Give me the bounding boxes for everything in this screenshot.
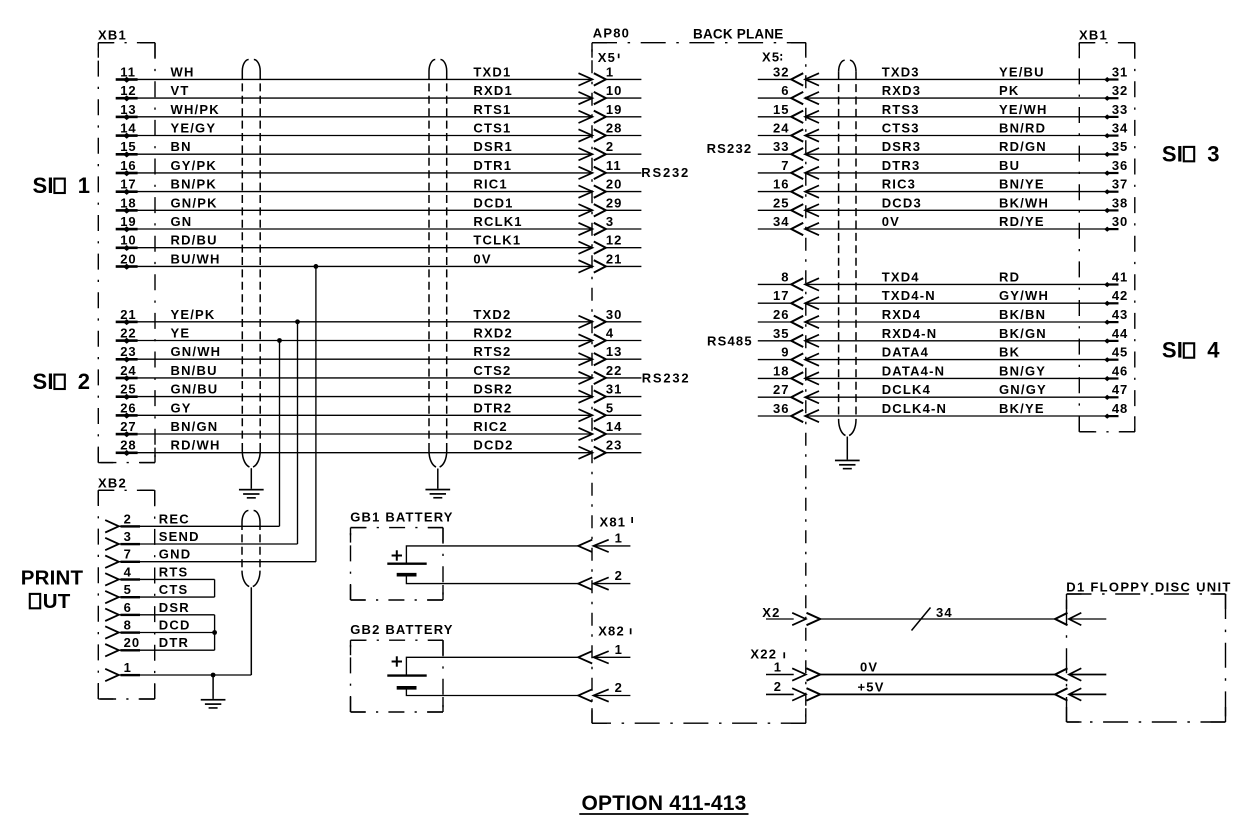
svg-text:10: 10 xyxy=(606,83,622,98)
svg-text:GY/WH: GY/WH xyxy=(999,288,1049,303)
svg-text:BN/RD: BN/RD xyxy=(999,121,1046,136)
wire XB2-4 RTS xyxy=(105,564,214,585)
svg-text:23: 23 xyxy=(120,344,136,359)
wire XB1-23 GN/WH / RTS2 to X5-13 xyxy=(116,344,593,365)
svg-text:38: 38 xyxy=(1112,195,1128,210)
svg-text:BN: BN xyxy=(171,139,192,154)
wire XB1-20 BU/WH / 0V to X5-21 xyxy=(116,251,593,272)
svg-text:24: 24 xyxy=(120,363,136,378)
cable shield SIO1/SIO2 cable A xyxy=(242,60,260,468)
cable shield SIO3/SIO4 cable xyxy=(839,60,856,435)
svg-text:TXD4-N: TXD4-N xyxy=(882,288,936,303)
svg-text:2: 2 xyxy=(124,511,132,526)
svg-text:GN/WH: GN/WH xyxy=(171,344,222,359)
svg-text:13: 13 xyxy=(120,102,136,117)
svg-text:30: 30 xyxy=(606,307,622,322)
shield drain wire A xyxy=(250,468,252,489)
svg-text:YE/WH: YE/WH xyxy=(999,102,1048,117)
svg-text:36: 36 xyxy=(773,401,789,416)
wire X5-35 RXD4-N / BK/GN to XB1-44 xyxy=(805,326,1128,347)
svg-text:43: 43 xyxy=(1112,307,1128,322)
svg-text:1: 1 xyxy=(615,531,623,546)
connector X82 pins xyxy=(578,623,631,701)
bus slash /34 xyxy=(912,605,953,631)
svg-text:RS232: RS232 xyxy=(642,370,691,385)
svg-text:CTS1: CTS1 xyxy=(473,121,511,136)
svg-text:48: 48 xyxy=(1112,401,1128,416)
svg-text:OPTION 411-413: OPTION 411-413 xyxy=(582,792,747,815)
svg-text:GND: GND xyxy=(159,547,192,562)
wire X5-26 RXD4 / BK/BN to XB1-43 xyxy=(805,307,1128,328)
wire X5-24 CTS3 / BN/RD to XB1-34 xyxy=(805,121,1128,142)
wire XB2-20 DTR xyxy=(105,635,214,656)
svg-text:2: 2 xyxy=(78,369,90,394)
svg-text:BU/WH: BU/WH xyxy=(171,251,221,266)
wire GB1+ to X81-1 xyxy=(406,546,578,564)
svg-text:3: 3 xyxy=(124,529,132,544)
svg-text:RD/GN: RD/GN xyxy=(999,139,1047,154)
label X5 (left) xyxy=(598,50,620,65)
svg-text:21: 21 xyxy=(120,307,136,322)
label X5 (right) xyxy=(762,50,782,65)
svg-text:32: 32 xyxy=(1112,83,1128,98)
svg-text:DATA4-N: DATA4-N xyxy=(882,363,946,378)
svg-text:X5: X5 xyxy=(762,50,780,65)
wire XB2-1 shield xyxy=(105,660,251,681)
svg-text:27: 27 xyxy=(120,419,136,434)
wire XB1-18 GN/PK / DCD1 to X5-29 xyxy=(116,195,593,216)
svg-text:GB1 BATTERY: GB1 BATTERY xyxy=(350,510,453,525)
svg-text:SI: SI xyxy=(33,369,54,394)
svg-text:34: 34 xyxy=(936,605,953,620)
svg-text:42: 42 xyxy=(1112,288,1128,303)
svg-text:12: 12 xyxy=(120,83,136,98)
svg-text:RIC2: RIC2 xyxy=(473,419,507,434)
ground cable A shield xyxy=(239,489,264,499)
svg-text:36: 36 xyxy=(1112,158,1128,173)
wire X5-25 DCD3 / BK/WH to XB1-38 xyxy=(805,195,1128,216)
svg-text:7: 7 xyxy=(781,158,789,173)
svg-text:5: 5 xyxy=(606,400,614,415)
svg-text:RXD4-N: RXD4-N xyxy=(882,326,938,341)
svg-text:15: 15 xyxy=(773,102,789,117)
svg-text:8: 8 xyxy=(124,618,132,633)
wire XB2-6 DSR xyxy=(105,600,214,621)
wire SEND to TXD2 (vertical) xyxy=(295,319,300,544)
svg-text:1: 1 xyxy=(774,659,782,674)
svg-text:DCD3: DCD3 xyxy=(882,195,922,210)
svg-text:DCD: DCD xyxy=(159,618,191,633)
wire XB1-12 VT / RXD1 to X5-10 xyxy=(116,83,593,104)
wire GB2+ to X82-1 xyxy=(406,657,578,675)
svg-text:33: 33 xyxy=(1112,102,1128,117)
svg-text:10: 10 xyxy=(120,233,136,248)
svg-text:22: 22 xyxy=(606,363,622,378)
svg-text:18: 18 xyxy=(773,363,789,378)
wire X5-36 DCLK4-N / BK/YE to XB1-48 xyxy=(805,401,1128,422)
svg-text:X2: X2 xyxy=(762,605,780,620)
wire XB2-7 GND xyxy=(105,547,316,568)
battery GB1 symbol xyxy=(387,550,426,574)
wire XB1-24 BN/BU / CTS2 to X5-22 xyxy=(116,363,593,384)
svg-text:BN/GN: BN/GN xyxy=(171,419,219,434)
svg-text:22: 22 xyxy=(120,326,136,341)
svg-text:YE/GY: YE/GY xyxy=(171,121,217,136)
svg-text:BK/YE: BK/YE xyxy=(999,401,1045,416)
svg-text:D1 FLOPPY DISC UNIT: D1 FLOPPY DISC UNIT xyxy=(1066,579,1231,594)
svg-text:GN: GN xyxy=(171,214,193,229)
svg-text:DTR2: DTR2 xyxy=(473,400,512,415)
svg-text:RCLK1: RCLK1 xyxy=(473,214,522,229)
svg-text:4: 4 xyxy=(124,564,132,579)
wire X22-2 +5V xyxy=(766,679,1106,700)
svg-text:RS485: RS485 xyxy=(707,334,753,349)
svg-text:RD: RD xyxy=(999,269,1020,284)
wire XB1-10 RD/BU / TCLK1 to X5-12 xyxy=(116,233,593,254)
svg-text:28: 28 xyxy=(120,438,136,453)
svg-text:6: 6 xyxy=(781,83,789,98)
svg-text:X82: X82 xyxy=(598,623,625,638)
connector X2 and ribbon to floppy xyxy=(762,605,1055,625)
svg-text:XB2: XB2 xyxy=(98,476,127,491)
svg-text:20: 20 xyxy=(606,177,622,192)
svg-text:SI: SI xyxy=(1162,338,1183,363)
wire XB1-17 BN/PK / RIC1 to X5-20 xyxy=(116,177,593,198)
svg-text:PK: PK xyxy=(999,83,1019,98)
connector X5 right column pins (stubs + chevrons) xyxy=(758,64,803,422)
svg-text:34: 34 xyxy=(773,214,789,229)
connector X5 left column pins (chevrons + stubs) xyxy=(594,64,642,459)
svg-text:XB1: XB1 xyxy=(1079,27,1108,42)
wire XB1-14 YE/GY / CTS1 to X5-28 xyxy=(116,121,593,142)
svg-text:35: 35 xyxy=(773,326,789,341)
svg-text:BN/YE: BN/YE xyxy=(999,177,1045,192)
svg-text:RTS3: RTS3 xyxy=(882,102,920,117)
svg-text:SEND: SEND xyxy=(159,529,200,544)
svg-text:28: 28 xyxy=(606,121,622,136)
wire X5-15 RTS3 / YE/WH to XB1-33 xyxy=(805,102,1128,123)
svg-text:TXD4: TXD4 xyxy=(882,269,920,284)
svg-text:TXD2: TXD2 xyxy=(473,307,511,322)
svg-text:26: 26 xyxy=(120,400,136,415)
svg-text:RS232: RS232 xyxy=(707,141,753,156)
svg-text:WH: WH xyxy=(171,64,195,79)
svg-text:0V: 0V xyxy=(882,214,900,229)
wire X5-16 RIC3 / BN/YE to XB1-37 xyxy=(805,177,1128,198)
wire XB2-5 CTS xyxy=(105,582,214,603)
svg-text:1: 1 xyxy=(615,642,623,657)
svg-text:DCD2: DCD2 xyxy=(473,438,513,453)
shield drain wire C xyxy=(846,437,848,460)
svg-text:BK: BK xyxy=(999,345,1020,360)
connector XB1 (right) dash-dot outline xyxy=(1079,43,1135,432)
svg-text:DSR3: DSR3 xyxy=(882,139,921,154)
svg-text:CTS: CTS xyxy=(159,582,189,597)
jumper DSR-DCD-DTR xyxy=(212,615,217,650)
wire XB1-22 YE / RXD2 to X5-4 xyxy=(116,326,593,347)
svg-text:BN/BU: BN/BU xyxy=(171,363,218,378)
svg-text:24: 24 xyxy=(773,121,789,136)
svg-text:3: 3 xyxy=(606,214,614,229)
svg-text:VT: VT xyxy=(171,83,190,98)
wire XB1-16 GY/PK / DTR1 to X5-11 xyxy=(116,158,593,179)
svg-text:YE/PK: YE/PK xyxy=(171,307,216,322)
svg-text:34: 34 xyxy=(1112,121,1128,136)
svg-text:DCLK4-N: DCLK4-N xyxy=(882,401,947,416)
shield drain wire B xyxy=(437,469,439,489)
wire X5-32 TXD3 / YE/BU to XB1-31 xyxy=(805,64,1128,85)
svg-text:0V: 0V xyxy=(473,251,491,266)
connector X81 pins xyxy=(578,515,633,590)
svg-text:DATA4: DATA4 xyxy=(882,345,929,360)
svg-text:25: 25 xyxy=(120,382,136,397)
svg-text:GB2 BATTERY: GB2 BATTERY xyxy=(350,622,453,637)
svg-text:RIC3: RIC3 xyxy=(882,177,916,192)
wire GB1- to X81-2 xyxy=(406,575,578,584)
svg-text:RD/BU: RD/BU xyxy=(171,233,218,248)
svg-text:AP80: AP80 xyxy=(593,26,630,41)
battery GB2 dash-dot outline xyxy=(351,640,444,712)
svg-text:1: 1 xyxy=(78,173,90,198)
wire XB1-26 GY / DTR2 to X5-5 xyxy=(116,400,593,421)
wire X5-33 DSR3 / RD/GN to XB1-35 xyxy=(805,139,1128,160)
svg-text:X81: X81 xyxy=(600,515,627,530)
svg-text:35: 35 xyxy=(1112,139,1128,154)
wire X5-7 DTR3 / BU to XB1-36 xyxy=(805,158,1128,179)
wire XB2-8 DCD xyxy=(105,618,214,639)
svg-text:GN/BU: GN/BU xyxy=(171,382,219,397)
svg-text:SI: SI xyxy=(33,173,54,198)
svg-text:RTS2: RTS2 xyxy=(473,344,511,359)
wire X5-34 0V / RD/YE to XB1-30 xyxy=(805,214,1128,235)
backplane AP80 dash-dot outline xyxy=(592,43,806,724)
svg-text:RXD4: RXD4 xyxy=(882,307,921,322)
svg-text:PRINT: PRINT xyxy=(21,566,84,589)
svg-text:CTS3: CTS3 xyxy=(882,121,920,136)
svg-text:31: 31 xyxy=(1112,64,1128,79)
svg-text:2: 2 xyxy=(615,568,623,583)
ground cable C shield xyxy=(835,460,860,470)
svg-text:RTS1: RTS1 xyxy=(473,102,511,117)
svg-text:16: 16 xyxy=(773,177,789,192)
svg-text:RD/WH: RD/WH xyxy=(171,438,221,453)
svg-text:BN/PK: BN/PK xyxy=(171,177,217,192)
svg-text:RTS: RTS xyxy=(159,564,189,579)
svg-text:RD/YE: RD/YE xyxy=(999,214,1045,229)
svg-text:20: 20 xyxy=(124,635,140,650)
ground cable B shield xyxy=(425,489,450,499)
ground XB2 pin 1 xyxy=(201,699,226,709)
svg-text:45: 45 xyxy=(1112,345,1128,360)
svg-text:1: 1 xyxy=(606,64,614,79)
svg-text:31: 31 xyxy=(606,382,622,397)
svg-text:DSR: DSR xyxy=(159,600,190,615)
svg-text:DSR2: DSR2 xyxy=(473,382,512,397)
wire GND to 0V (vertical) xyxy=(314,264,319,562)
svg-text:46: 46 xyxy=(1112,363,1128,378)
wire X22-1 0V xyxy=(766,659,1106,680)
jumper RTS-CTS xyxy=(214,579,216,597)
svg-text:UT: UT xyxy=(43,590,71,613)
svg-text:18: 18 xyxy=(120,195,136,210)
svg-text:DTR3: DTR3 xyxy=(882,158,921,173)
svg-text:BK/BN: BK/BN xyxy=(999,307,1046,322)
svg-text:SI: SI xyxy=(1162,141,1183,166)
svg-text:REC: REC xyxy=(159,511,190,526)
svg-text:2: 2 xyxy=(615,680,623,695)
svg-text:7: 7 xyxy=(124,547,132,562)
wire REC to RXD2 (vertical) xyxy=(277,338,282,526)
svg-text:37: 37 xyxy=(1112,177,1128,192)
svg-text:RXD3: RXD3 xyxy=(882,83,921,98)
svg-text:TXD3: TXD3 xyxy=(882,64,920,79)
svg-text:17: 17 xyxy=(120,177,136,192)
svg-text:DCD1: DCD1 xyxy=(473,195,513,210)
cable shield XB2 printer cable xyxy=(242,511,260,587)
svg-text:RXD1: RXD1 xyxy=(473,83,512,98)
svg-text:DCLK4: DCLK4 xyxy=(882,382,931,397)
svg-text:RXD2: RXD2 xyxy=(473,326,512,341)
connector XB1 (left) dash-dot outline xyxy=(98,43,155,463)
svg-text:17: 17 xyxy=(773,288,789,303)
wire XB1-11 WH / TXD1 to X5-1 xyxy=(116,64,593,85)
svg-text:RIC1: RIC1 xyxy=(473,177,507,192)
svg-text:BK/GN: BK/GN xyxy=(999,326,1047,341)
svg-text:+5V: +5V xyxy=(858,679,885,694)
svg-text:GN/GY: GN/GY xyxy=(999,382,1047,397)
svg-text:27: 27 xyxy=(773,382,789,397)
svg-text:3: 3 xyxy=(1207,141,1219,166)
svg-text:2: 2 xyxy=(774,679,782,694)
svg-text:8: 8 xyxy=(781,269,789,284)
svg-text:16: 16 xyxy=(120,158,136,173)
svg-text:BACK PLANE: BACK PLANE xyxy=(693,26,784,41)
svg-text:20: 20 xyxy=(120,251,136,266)
unit D1 FLOPPY DISC UNIT dash-dot outline xyxy=(1067,594,1226,722)
svg-text:RS232: RS232 xyxy=(641,165,690,180)
svg-text:1: 1 xyxy=(124,660,132,675)
cable shield SIO1/SIO2 cable B xyxy=(429,60,447,468)
wire XB2-2 REC xyxy=(105,511,279,532)
svg-text:6: 6 xyxy=(124,600,132,615)
wire XB1-15 BN / DSR1 to X5-2 xyxy=(116,139,593,160)
svg-text:30: 30 xyxy=(1112,214,1128,229)
svg-text:BU: BU xyxy=(999,158,1020,173)
svg-text:YE: YE xyxy=(171,326,191,341)
wire XB1-21 YE/PK / TXD2 to X5-30 xyxy=(116,307,593,328)
ground stem XB2 pin1 xyxy=(212,675,214,699)
svg-text:19: 19 xyxy=(606,102,622,117)
svg-text:13: 13 xyxy=(606,344,622,359)
shield drain wire XB2 cable to pin 1 xyxy=(250,587,252,675)
wire X5-18 DATA4-N / BN/GY to XB1-46 xyxy=(805,363,1128,384)
svg-text:TCLK1: TCLK1 xyxy=(473,233,521,248)
svg-text:0V: 0V xyxy=(860,660,878,675)
svg-text:47: 47 xyxy=(1112,382,1128,397)
connector XB2 dash-dot outline xyxy=(98,490,154,699)
svg-text:DTR: DTR xyxy=(159,635,189,650)
svg-text:TXD1: TXD1 xyxy=(473,64,511,79)
svg-text:15: 15 xyxy=(120,139,136,154)
wire GB2- to X82-2 xyxy=(406,688,578,696)
connector X22 label xyxy=(750,646,785,661)
svg-text:9: 9 xyxy=(781,345,789,360)
svg-text:DTR1: DTR1 xyxy=(473,158,512,173)
wire X5-27 DCLK4 / GN/GY to XB1-47 xyxy=(805,382,1128,403)
wire XB1-27 BN/GN / RIC2 to X5-14 xyxy=(116,419,593,440)
svg-text:25: 25 xyxy=(773,195,789,210)
wire XB2-3 SEND xyxy=(105,529,297,550)
svg-text:19: 19 xyxy=(120,214,136,229)
svg-text:21: 21 xyxy=(606,251,622,266)
wire X5-8 TXD4 / RD to XB1-41 xyxy=(805,269,1128,290)
svg-text:4: 4 xyxy=(606,326,614,341)
svg-text:12: 12 xyxy=(606,233,622,248)
svg-text:2: 2 xyxy=(606,139,614,154)
svg-text:33: 33 xyxy=(773,139,789,154)
svg-text:GY: GY xyxy=(171,400,192,415)
svg-text:14: 14 xyxy=(606,419,622,434)
svg-text:YE/BU: YE/BU xyxy=(999,64,1045,79)
svg-text:29: 29 xyxy=(606,195,622,210)
svg-text:23: 23 xyxy=(606,438,622,453)
floppy side connector for X2 xyxy=(1055,613,1106,625)
wire XB1-25 GN/BU / DSR2 to X5-31 xyxy=(116,382,593,403)
wire XB1-28 RD/WH / DCD2 to X5-23 xyxy=(116,438,593,459)
svg-text:4: 4 xyxy=(1207,338,1220,363)
svg-text:11: 11 xyxy=(120,64,136,79)
svg-text:41: 41 xyxy=(1112,269,1128,284)
svg-text:44: 44 xyxy=(1112,326,1128,341)
svg-text:GY/PK: GY/PK xyxy=(171,158,217,173)
svg-text:CTS2: CTS2 xyxy=(473,363,511,378)
svg-text:11: 11 xyxy=(606,158,622,173)
title OPTION 411-413 xyxy=(579,792,748,815)
battery GB1 dash-dot outline xyxy=(351,528,444,600)
wire XB1-19 GN / RCLK1 to X5-3 xyxy=(116,214,593,235)
svg-text:X5: X5 xyxy=(598,50,616,65)
battery GB2 symbol xyxy=(387,656,426,688)
svg-text:32: 32 xyxy=(773,64,789,79)
wire X5-17 TXD4-N / GY/WH to XB1-42 xyxy=(805,288,1128,309)
svg-text:WH/PK: WH/PK xyxy=(171,102,220,117)
svg-text:BK/WH: BK/WH xyxy=(999,195,1049,210)
label PRINT OUT xyxy=(21,566,84,613)
svg-text:BN/GY: BN/GY xyxy=(999,363,1046,378)
svg-text:GN/PK: GN/PK xyxy=(171,195,218,210)
wire XB1-13 WH/PK / RTS1 to X5-19 xyxy=(116,102,593,123)
svg-text:DSR1: DSR1 xyxy=(473,139,512,154)
svg-text:5: 5 xyxy=(124,582,132,597)
svg-text:26: 26 xyxy=(773,307,789,322)
wire X5-9 DATA4 / BK to XB1-45 xyxy=(805,345,1128,366)
svg-text:14: 14 xyxy=(120,121,136,136)
wire X5-6 RXD3 / PK to XB1-32 xyxy=(805,83,1128,104)
svg-text:XB1: XB1 xyxy=(98,27,127,42)
